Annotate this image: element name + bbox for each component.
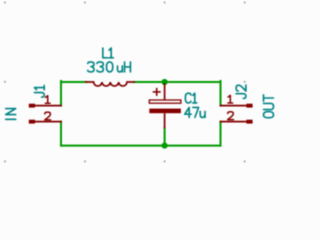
connector J2 — [220, 104, 253, 124]
wire — [60, 81, 62, 106]
wire — [164, 128, 166, 146]
wire — [61, 81, 86, 83]
pin number 1 — [45, 96, 50, 104]
junction — [162, 79, 168, 85]
wire — [220, 81, 222, 106]
value 47u — [185, 107, 205, 117]
junction — [162, 143, 168, 149]
net label IN — [6, 109, 16, 120]
label J2 — [236, 85, 246, 98]
value 330 uH — [88, 62, 131, 72]
inductor L1 — [86, 82, 135, 86]
wire — [60, 122, 62, 146]
wire — [134, 81, 220, 83]
label C1 — [185, 93, 196, 103]
connector J1 — [29, 104, 62, 124]
wire — [220, 122, 222, 146]
net label OUT — [264, 95, 274, 118]
pin number 2 — [45, 112, 51, 120]
label J1 — [34, 85, 44, 97]
wire — [61, 145, 221, 147]
pin number 2 — [228, 112, 234, 120]
capacitor C1 — [149, 83, 181, 128]
label L1 — [103, 48, 114, 58]
pin number 1 — [228, 95, 233, 103]
